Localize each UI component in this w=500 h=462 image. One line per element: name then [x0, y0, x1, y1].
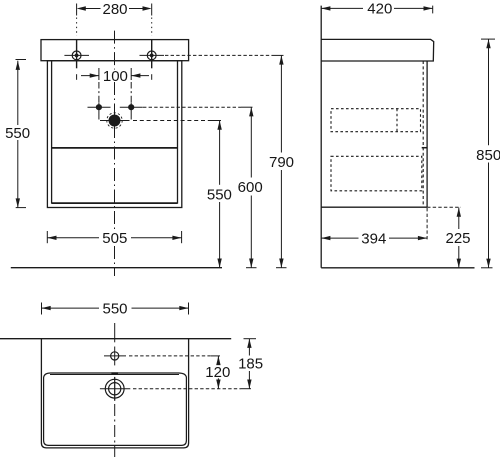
dimension 550 plan — [42, 303, 189, 315]
cabinet body outer — [47, 61, 181, 208]
floor tick under 850 — [481, 267, 493, 269]
svg-text:280: 280 — [102, 1, 127, 18]
cabinet inner bottom — [52, 202, 178, 204]
centerline hole left (dash-dot vertical) — [76, 18, 78, 80]
svg-text:850: 850 — [476, 147, 500, 164]
cabinet side body — [321, 61, 427, 207]
floor line front — [11, 267, 222, 269]
centerline small hole right — [130, 82, 132, 120]
floor tick under 790 — [276, 267, 287, 269]
floor tick under 600 — [246, 267, 257, 269]
dimension 420 — [321, 6, 433, 14]
svg-text:790: 790 — [269, 154, 294, 171]
dimension 185 — [244, 339, 257, 389]
small hole left (faucet fixing) — [88, 104, 111, 110]
leader drain to 185 (dotted) — [133, 388, 241, 390]
dimension 505 — [47, 231, 181, 243]
center line front view — [114, 31, 116, 276]
hidden drawer box upper (dashed) — [331, 109, 421, 132]
drawer divider edge on side view — [422, 147, 427, 149]
mounting hole right — [140, 51, 165, 60]
leader drain to 550 (dashed) — [133, 120, 211, 122]
svg-text:550: 550 — [207, 187, 232, 204]
basin outer outline — [41, 339, 188, 448]
leader mounting holes to 790 (dotted) — [165, 54, 272, 56]
svg-text:505: 505 — [102, 230, 127, 247]
center line plan view — [114, 323, 116, 457]
svg-text:100: 100 — [103, 68, 128, 85]
cabinet body inner left wall — [51, 61, 53, 204]
svg-text:550: 550 — [5, 125, 30, 142]
right extension dotted for 394 — [426, 208, 428, 240]
dimension 100 — [81, 68, 149, 80]
faucet hole plan — [104, 352, 126, 360]
dimension 850 — [481, 39, 495, 268]
leader small holes to 600 (dotted) — [143, 106, 241, 108]
centerline small hole left — [98, 82, 100, 120]
dimension 120 — [216, 356, 220, 389]
wall line plan — [0, 338, 231, 340]
leader faucet to 120 (dotted) — [129, 355, 211, 357]
centerline hole right — [151, 18, 153, 80]
dimension 225 — [457, 208, 461, 268]
svg-text:550: 550 — [102, 301, 127, 318]
countertop side profile — [321, 39, 434, 61]
dimension 550 right — [217, 121, 221, 268]
wall line — [320, 6, 322, 268]
dimension 790 — [279, 55, 283, 267]
dimension 600 — [249, 107, 253, 268]
overflow mark on bowl edge — [111, 372, 118, 374]
svg-text:600: 600 — [238, 179, 263, 196]
drain plan — [100, 377, 130, 401]
drawer divider line — [52, 147, 178, 149]
basin bowl inner outline — [44, 373, 187, 445]
svg-text:225: 225 — [445, 230, 470, 247]
svg-text:185: 185 — [238, 355, 263, 372]
bowl rim second line — [50, 374, 179, 376]
countertop front — [41, 40, 189, 61]
mounting hole left — [64, 51, 89, 60]
hidden drawer box lower (dashed) — [331, 156, 422, 191]
dimension 280 — [77, 4, 152, 16]
hidden drawer front line (dashed vertical) — [422, 61, 424, 207]
cabinet body inner right wall — [177, 61, 179, 204]
dimension 550 left — [16, 60, 27, 208]
floor line side — [321, 267, 474, 269]
small hole right — [120, 104, 143, 110]
svg-text:120: 120 — [205, 364, 230, 381]
cabinet bottom dotted extension to 225 — [427, 206, 461, 208]
svg-text:394: 394 — [361, 231, 386, 248]
dimension 394 — [321, 236, 427, 240]
drain hole front — [100, 113, 130, 128]
svg-text:420: 420 — [367, 1, 392, 18]
